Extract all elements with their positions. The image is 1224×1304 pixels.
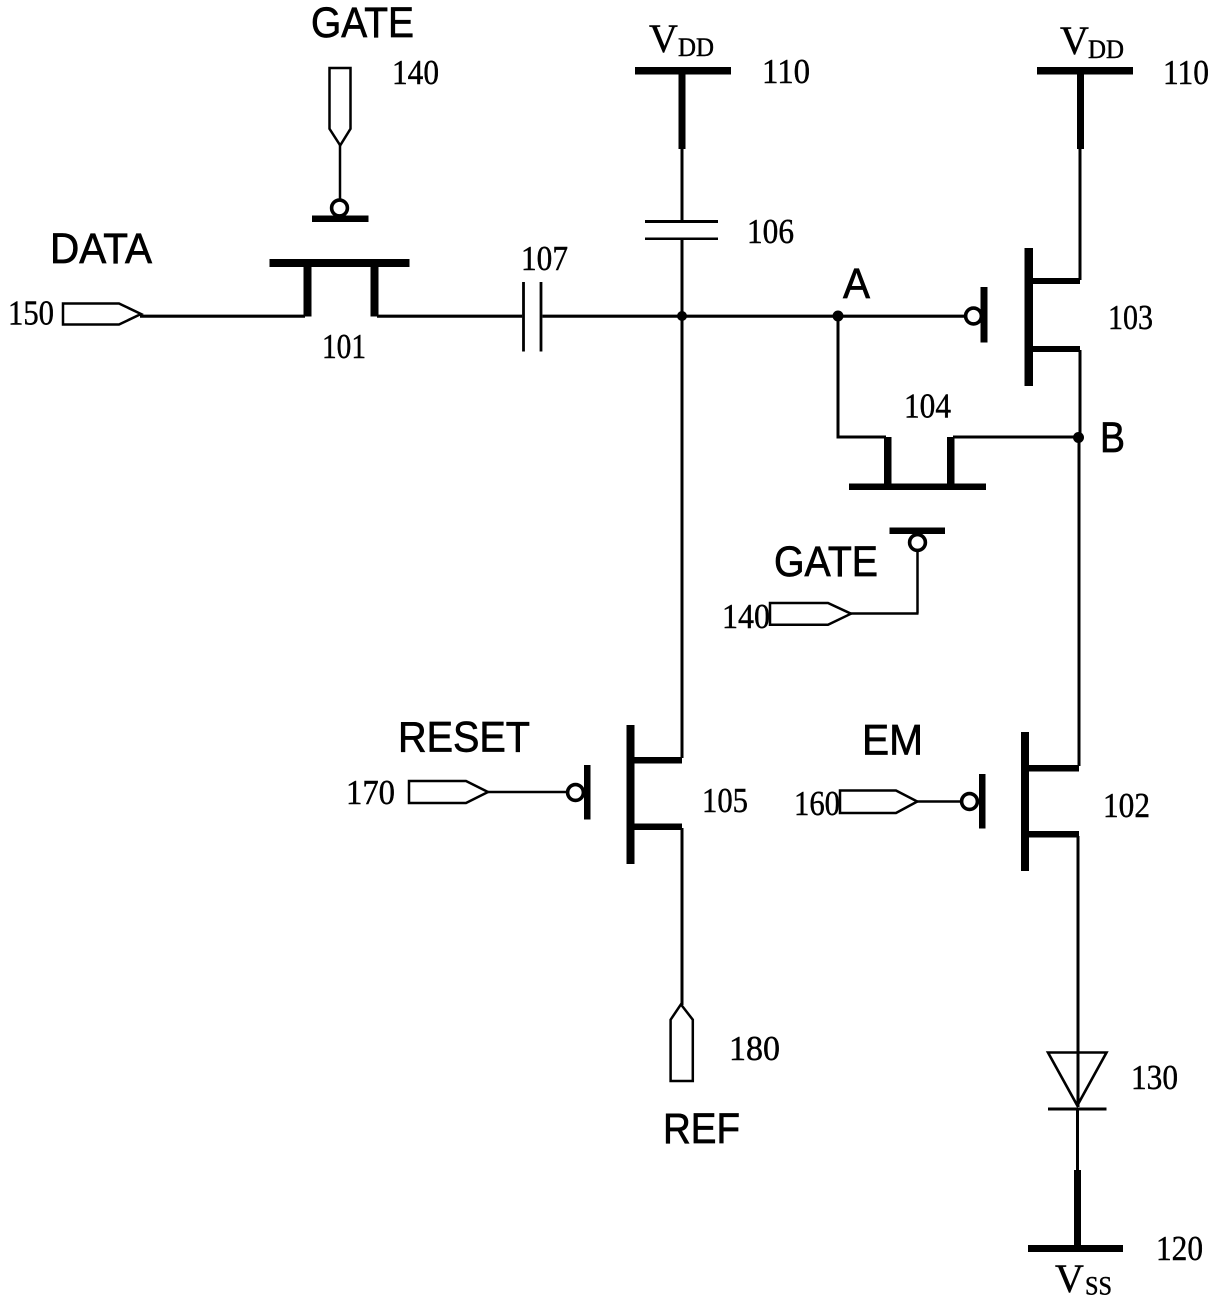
svg-text:A: A — [843, 260, 870, 308]
wire capacitor 107 to gate bubble of 103 (through junction and node A) — [543, 315, 967, 318]
node B dot — [1073, 432, 1084, 443]
svg-text:GATE: GATE — [774, 538, 878, 586]
node A dot — [833, 311, 844, 322]
svg-text:106: 106 — [747, 212, 794, 251]
terminal 140 (lower GATE input, pointing right) — [770, 603, 851, 625]
power symbol VDD (left) — [635, 67, 731, 149]
wire transistor 102 down to diode 130 — [1077, 836, 1080, 1107]
svg-text:150: 150 — [8, 294, 54, 333]
transistor 104 — [849, 437, 986, 550]
svg-text:101: 101 — [322, 327, 366, 366]
wire VDD(right) to transistor 103 top lead — [1079, 148, 1082, 280]
svg-text:B: B — [1100, 414, 1125, 462]
wire gate bubble of 104 down — [916, 551, 919, 614]
svg-text:103: 103 — [1108, 298, 1153, 337]
wire diode 130 to VSS — [1076, 1109, 1079, 1172]
terminal 160 (EM input, pointing right) — [840, 791, 917, 814]
terminal 170 (RESET input, pointing right) — [409, 781, 488, 803]
terminal 140 (GATE input, pointing down) — [330, 68, 351, 145]
transistor 103 — [966, 248, 1080, 386]
svg-text:V: V — [1055, 1256, 1084, 1301]
wire terminal 160 to gate bubble of 102 — [916, 800, 961, 803]
svg-text:110: 110 — [1163, 53, 1209, 92]
wire transistor 103 bottom lead to node B — [1079, 350, 1082, 438]
wire transistor 101 to capacitor 107 — [377, 315, 522, 318]
svg-text:140: 140 — [392, 53, 439, 92]
svg-text:110: 110 — [762, 52, 810, 91]
wire terminal 140 to gate bubble of 101 — [339, 145, 342, 200]
terminal 180 (REF, pointing up) — [671, 1004, 693, 1081]
svg-text:V: V — [1060, 18, 1089, 63]
svg-text:130: 130 — [1131, 1058, 1178, 1097]
svg-text:170: 170 — [346, 773, 395, 812]
svg-text:104: 104 — [904, 387, 951, 426]
svg-text:DD: DD — [678, 33, 714, 62]
diode (OLED) 130 — [1048, 1053, 1107, 1110]
svg-text:SS: SS — [1085, 1272, 1112, 1301]
svg-text:REF: REF — [663, 1105, 740, 1153]
wire to transistor 104 left leg — [837, 436, 887, 439]
svg-text:EM: EM — [862, 717, 923, 765]
svg-text:105: 105 — [702, 781, 748, 820]
svg-text:RESET: RESET — [398, 714, 530, 762]
transistor 101 — [270, 200, 410, 316]
svg-text:DD: DD — [1088, 35, 1124, 64]
junction dot at capacitor 106 / transistor 105 — [677, 311, 687, 321]
transistor 102 — [962, 732, 1079, 871]
wire VDD(left) to capacitor 106 — [681, 148, 684, 221]
capacitor C106 — [645, 220, 718, 240]
wire transistor 105 down to terminal 180 — [681, 828, 684, 1005]
svg-text:DATA: DATA — [50, 225, 152, 273]
transistor 105 — [568, 725, 682, 864]
wire junction down to transistor 105 — [681, 316, 684, 758]
wire to terminal 140 (lower) — [850, 612, 919, 615]
terminal 150 (DATA input, pointing right) — [63, 304, 141, 325]
svg-text:107: 107 — [521, 239, 568, 278]
wire node B down to transistor 102 — [1078, 437, 1081, 766]
svg-text:V: V — [649, 16, 678, 61]
svg-text:160: 160 — [794, 784, 840, 823]
wire capacitor 106 down to main row junction — [681, 239, 684, 317]
svg-text:GATE: GATE — [311, 0, 414, 47]
svg-text:102: 102 — [1103, 786, 1150, 825]
svg-text:140: 140 — [722, 597, 770, 636]
wire terminal 150 to transistor 101 — [140, 315, 305, 318]
wire node A down to transistor 104 — [837, 316, 840, 439]
power symbol VSS — [1028, 1170, 1123, 1252]
capacitor C107 — [524, 282, 542, 352]
wire transistor 104 right leg to node B — [953, 436, 1079, 439]
svg-text:120: 120 — [1156, 1229, 1203, 1268]
svg-text:180: 180 — [729, 1029, 780, 1068]
power symbol VDD (right) — [1037, 67, 1133, 149]
wire terminal 170 to gate bubble of 105 — [487, 791, 568, 794]
